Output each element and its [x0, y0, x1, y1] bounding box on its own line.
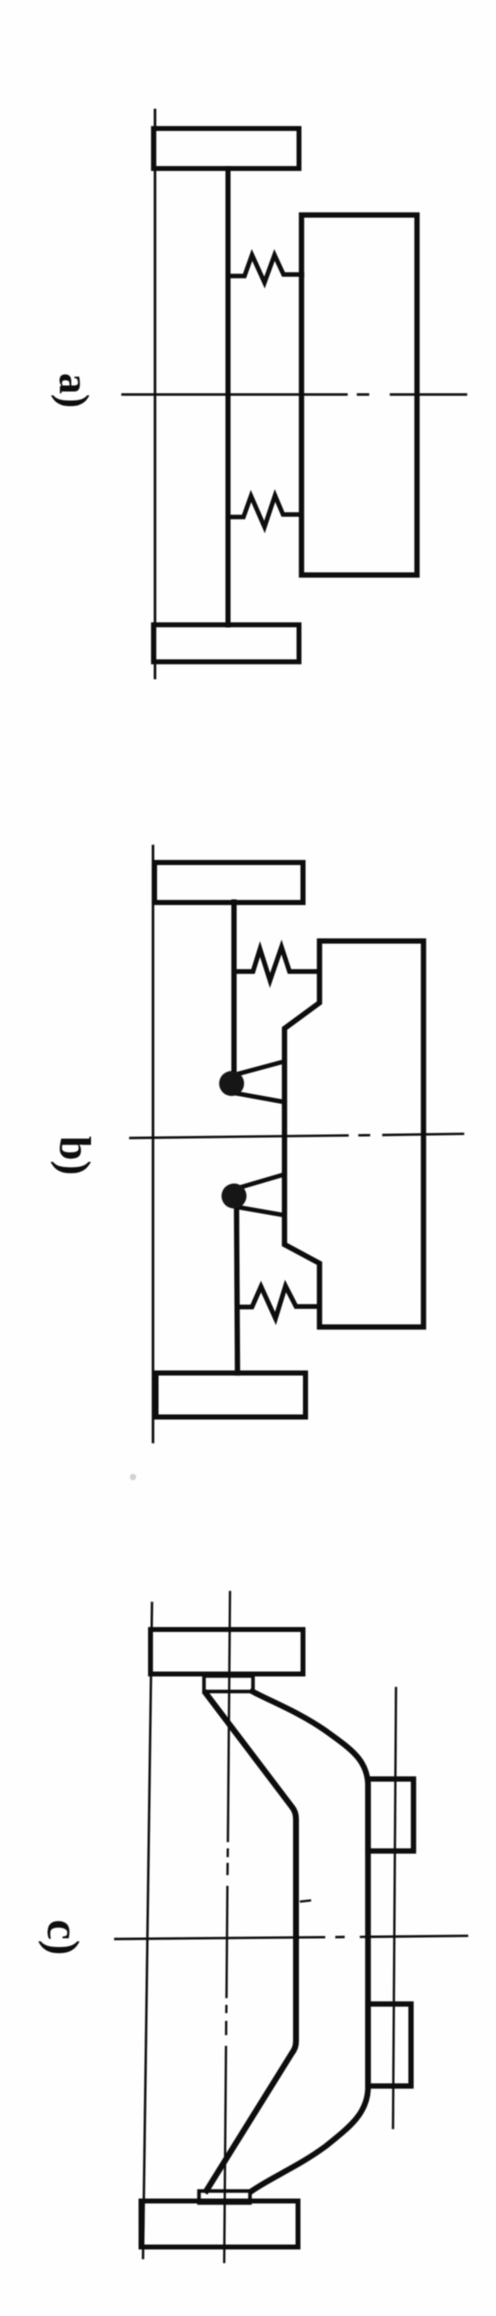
figure c: outer bell wall: [253, 1692, 369, 2191]
figure c: lower flange plate: [141, 2201, 298, 2247]
figure b: upper flange plate: [155, 863, 304, 903]
figure c: upper flange plate: [151, 1630, 304, 1675]
figure a: upper spring: [231, 255, 303, 283]
figure c: stray dash mark: [301, 1901, 310, 1902]
figure a: wheel disc stem: [225, 169, 230, 626]
figure b: lower flange plate: [156, 1373, 306, 1417]
stray scan speck: [130, 1474, 136, 1480]
figure c: horizontal axis centerline (dash-dot): [115, 1936, 467, 1939]
figure a: horizontal axis centerline (dash-dot): [123, 393, 467, 395]
figure b: upper pivot vee links: [236, 1062, 284, 1103]
svg-text:c): c): [38, 1920, 89, 1956]
figure c: left web line: [143, 1603, 152, 2258]
figure b: horizontal axis centerline (dash-dot): [130, 1134, 463, 1138]
figure b: vertical web line through flange plates: [152, 846, 155, 1442]
figure a: rim block: [302, 215, 418, 575]
figure c: upper hub boss: [204, 1676, 253, 1692]
figure b: upper stem: [231, 902, 236, 1076]
figure b: stepped rim block: [285, 941, 424, 1327]
figure a: lower spring: [231, 496, 302, 528]
figure b: lower spring: [238, 1286, 320, 1319]
figure c: bolt axis centerline (dash-dot, vertical): [224, 1592, 230, 2262]
figure c: lower hub boss: [199, 2191, 250, 2203]
figure c: inner disc wall: [206, 1694, 296, 2191]
figure a: vertical web line through flange plates: [154, 110, 157, 678]
figure c: right bolt axis line: [393, 1688, 396, 2128]
figure b: lower pivot ball: [222, 1184, 247, 1209]
figure a: upper flange plate: [154, 129, 300, 169]
figure b: lower stem: [237, 1204, 238, 1373]
figure b: upper spring: [236, 947, 319, 981]
figure b: upper pivot ball: [219, 1071, 244, 1096]
svg-text:b): b): [50, 1136, 99, 1175]
figure c: upper rim boss: [368, 1779, 414, 1851]
svg-text:a): a): [50, 373, 96, 408]
figure a: lower flange plate: [154, 625, 300, 662]
figure b: lower pivot vee links: [237, 1175, 284, 1216]
figure c: lower rim boss: [368, 2004, 411, 2086]
